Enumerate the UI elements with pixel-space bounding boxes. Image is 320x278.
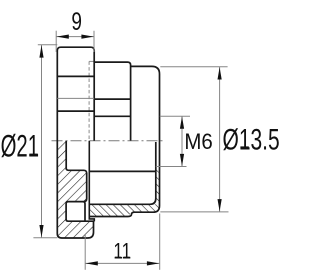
dim 11: extension lines: [84, 235, 86, 270]
head inner edge line 1: [57, 75, 94, 77]
flange wall step outline: [66, 141, 87, 202]
second step edge line 2: [94, 115, 130, 117]
head outline: [57, 47, 94, 141]
left outer wall lower outline: [57, 141, 93, 238]
second step outline: [94, 62, 130, 141]
hidden edge dashed line: [88, 61, 90, 140]
skirt outline: [89, 66, 159, 216]
svg-text:Ø13.5: Ø13.5: [223, 124, 280, 156]
head inner edge line 2: [57, 110, 94, 112]
dim O21: arrows: [39, 45, 43, 57]
dim 9: dimension line: [56, 36, 94, 38]
dim 9: extension lines: [55, 31, 57, 52]
serif feet for digit 1 glyphs (match target font style): [29, 154, 37, 156]
hatched section: flange/left wall: [57, 141, 93, 238]
dim M6: arrows: [180, 116, 184, 128]
dim 9: arrows: [57, 35, 69, 39]
thread hole bottom edge: [89, 170, 156, 172]
inner groove notch: [66, 202, 94, 222]
second step edge line 1: [94, 98, 130, 100]
skirt inner wall: [89, 142, 156, 204]
dim O13.5: extension lines: [160, 66, 227, 68]
svg-text:Ø21: Ø21: [1, 128, 39, 164]
dim 11: dimension line: [85, 262, 159, 264]
dim M6: dimension line: [181, 116, 183, 166]
hub step detail: [89, 141, 94, 222]
dim M6: extension lines: [160, 115, 190, 117]
axis centerline: [52, 140, 166, 142]
dim 11: arrows: [86, 261, 98, 265]
svg-text:M6: M6: [184, 130, 212, 155]
thin step edge: [89, 60, 94, 62]
svg-text:9: 9: [71, 7, 82, 35]
dim O13.5: dimension line: [219, 67, 221, 212]
svg-text:11: 11: [113, 240, 131, 265]
dim O13.5: arrows: [218, 67, 222, 79]
dim O21: dimension line: [41, 45, 43, 238]
dim O21: extension lines: [38, 44, 58, 46]
head thin edge line: [57, 97, 94, 99]
hatched section: hub bar and skirt wall: [90, 167, 160, 217]
